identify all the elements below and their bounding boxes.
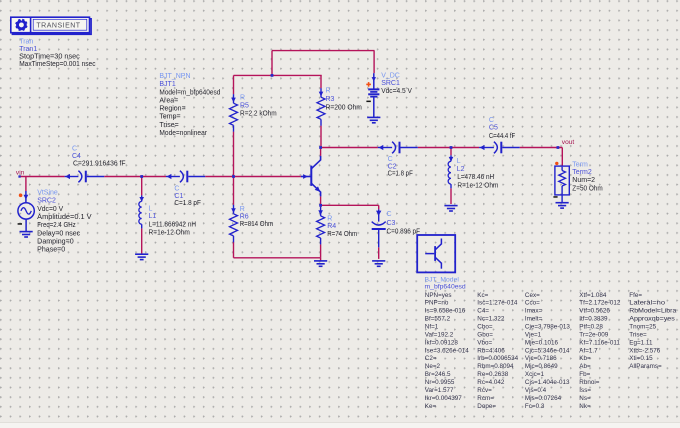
- svg-text:Ikr=0.004397: Ikr=0.004397: [425, 395, 462, 402]
- svg-text:Vtf=0.5626: Vtf=0.5626: [579, 308, 610, 315]
- SRC2 minus mark: [18, 223, 22, 225]
- svg-text:R6: R6: [240, 214, 249, 221]
- Term2 plus mark: [555, 162, 558, 165]
- svg-text:Vbo=: Vbo=: [477, 339, 492, 346]
- svg-text:R4: R4: [327, 223, 336, 230]
- svg-text:Lateral=no: Lateral=no: [629, 300, 665, 307]
- svg-text:Cco=: Cco=: [525, 300, 540, 307]
- svg-text:Nc=1.322: Nc=1.322: [477, 316, 505, 323]
- resistor R3: [317, 88, 325, 126]
- svg-text:Trise=: Trise=: [159, 122, 178, 129]
- svg-text:Ptf=0.28: Ptf=0.28: [579, 324, 603, 331]
- wire L2 to ground: [450, 188, 452, 204]
- svg-text:Tran1: Tran1: [19, 46, 37, 53]
- svg-text:Rc=4.042: Rc=4.042: [477, 379, 505, 386]
- svg-text:NPN=yes: NPN=yes: [425, 292, 452, 299]
- model box m_bfp640esd: [417, 235, 455, 272]
- R5 labels: [240, 95, 277, 118]
- wire C3 to ground: [378, 247, 380, 259]
- wire bottom rail: [234, 257, 321, 259]
- svg-text:Xti=0.15: Xti=0.15: [629, 355, 653, 362]
- svg-text:C3: C3: [387, 220, 396, 227]
- C4 labels: [72, 145, 126, 167]
- wire top rail drop: [271, 51, 273, 76]
- C3 labels: [387, 211, 421, 235]
- wire to V_DC: [373, 51, 375, 74]
- svg-text:Cbo=: Cbo=: [477, 324, 493, 331]
- svg-text:R: R: [240, 206, 245, 213]
- svg-text:Tf=2.172e-012: Tf=2.172e-012: [579, 300, 621, 307]
- svg-text:C5: C5: [489, 125, 498, 132]
- svg-text:Isc=1.27e-014: Isc=1.27e-014: [477, 300, 518, 307]
- svg-text:Rb=4.406: Rb=4.406: [477, 347, 505, 354]
- wire R4 to ground rail: [320, 244, 322, 257]
- wire emitter stub: [320, 196, 322, 207]
- junction L1 tap: [140, 175, 143, 178]
- capacitor C5: [479, 142, 520, 154]
- svg-text:Mje=0.1016: Mje=0.1016: [525, 339, 559, 346]
- C2 labels: [388, 156, 413, 178]
- svg-text:C1: C1: [174, 193, 183, 200]
- wire collector to C2: [321, 147, 378, 149]
- svg-text:Dope=: Dope=: [477, 403, 496, 410]
- wire emitter to C3: [321, 204, 379, 206]
- Term2 labels: [572, 162, 603, 193]
- svg-text:Phase=0: Phase=0: [37, 247, 65, 254]
- svg-text:Vaf=192.2: Vaf=192.2: [425, 331, 454, 338]
- svg-text:Xcjc=1: Xcjc=1: [525, 371, 545, 378]
- svg-text:Irb=0.0006534: Irb=0.0006534: [477, 355, 518, 362]
- svg-text:Kc=: Kc=: [477, 292, 488, 299]
- svg-text:Mjc=0.8649: Mjc=0.8649: [525, 363, 558, 370]
- svg-text:L1: L1: [149, 213, 157, 220]
- svg-text:RbModel=Libra: RbModel=Libra: [629, 308, 677, 315]
- svg-text:Br=246.5: Br=246.5: [425, 371, 451, 378]
- svg-text:vout: vout: [562, 139, 575, 146]
- svg-text:Ffe=: Ffe=: [629, 292, 642, 299]
- svg-text:Rcv=: Rcv=: [477, 387, 492, 394]
- svg-text:Tnom=25: Tnom=25: [629, 324, 656, 331]
- SRC1 plus mark: [366, 82, 371, 87]
- ground below L1: [135, 254, 148, 259]
- wire to L2: [450, 148, 452, 156]
- svg-text:Eg=1.11: Eg=1.11: [629, 339, 653, 346]
- SRC2 plus mark: [19, 194, 23, 198]
- svg-text:Rcm=: Rcm=: [477, 395, 494, 402]
- svg-text:SRC2: SRC2: [37, 198, 56, 205]
- inductor L2: [448, 155, 453, 188]
- capacitor C3: [372, 209, 386, 247]
- svg-text:BJT_Model: BJT_Model: [425, 276, 460, 283]
- svg-text:R: R: [240, 95, 245, 102]
- capacitor C2: [378, 142, 418, 154]
- svg-text:Freq=2.4 GHz: Freq=2.4 GHz: [37, 222, 76, 229]
- svg-text:R=1e-12 Ohm: R=1e-12 Ohm: [149, 229, 191, 236]
- svg-text:C=1.8 pF: C=1.8 pF: [174, 200, 201, 207]
- svg-text:Term2: Term2: [572, 169, 592, 176]
- svg-text:C: C: [387, 211, 392, 218]
- svg-text:L=11.866942 nH: L=11.866942 nH: [149, 221, 197, 228]
- svg-text:Amplitude=0.1 V: Amplitude=0.1 V: [37, 214, 92, 221]
- ground stub R4/R6 rail: [320, 258, 322, 261]
- ground stub below L1: [141, 253, 143, 254]
- wire R5 to base net: [233, 132, 235, 177]
- svg-text:Ikf=0.09128: Ikf=0.09128: [425, 339, 459, 346]
- svg-text:Ns=: Ns=: [579, 395, 591, 402]
- svg-text:TRANSIENT: TRANSIENT: [36, 22, 80, 29]
- wire collector stub: [320, 148, 322, 156]
- svg-text:R: R: [327, 215, 332, 222]
- svg-text:R5: R5: [240, 102, 249, 109]
- svg-text:Xtf=1.084: Xtf=1.084: [579, 292, 607, 299]
- svg-text:Ise=3.626e-014: Ise=3.626e-014: [425, 347, 469, 354]
- junction L2 tap: [450, 146, 453, 149]
- wire rail to R3: [320, 75, 322, 88]
- svg-text:Trise=: Trise=: [629, 331, 647, 338]
- ground below SRC2: [20, 232, 33, 237]
- svg-text:C: C: [489, 117, 494, 124]
- wire L1 to ground: [141, 228, 143, 253]
- wire rail to R5: [233, 75, 235, 94]
- svg-text:Ne=2: Ne=2: [425, 363, 441, 370]
- svg-text:Bf=557.2: Bf=557.2: [425, 316, 451, 323]
- svg-text:L=478.46 nH: L=478.46 nH: [457, 174, 494, 181]
- svg-text:Delay=0 nsec: Delay=0 nsec: [37, 230, 81, 237]
- svg-text:StopTime=30 nsec: StopTime=30 nsec: [19, 53, 80, 60]
- svg-text:Vdc=0 V: Vdc=0 V: [37, 206, 63, 213]
- Term2 ground stub: [561, 194, 563, 202]
- svg-text:C: C: [72, 145, 77, 152]
- wire R3 to collector node: [320, 126, 322, 148]
- svg-text:Num=2: Num=2: [572, 177, 595, 184]
- inductor L1: [139, 195, 144, 228]
- svg-text:Mode=nonlinear: Mode=nonlinear: [159, 130, 207, 137]
- svg-text:Rbm=0.8094: Rbm=0.8094: [477, 363, 514, 370]
- ground below C3: [372, 261, 385, 266]
- svg-text:Cje=3.798e-013: Cje=3.798e-013: [525, 324, 570, 331]
- svg-text:Gbo=: Gbo=: [477, 331, 493, 338]
- ground below R4: [314, 261, 327, 266]
- wire vin to C4: [20, 176, 65, 178]
- svg-text:Is=9.658e-016: Is=9.658e-016: [425, 308, 466, 315]
- svg-text:Kf=7.116e-011: Kf=7.116e-011: [579, 339, 620, 346]
- wire to L1: [141, 177, 143, 196]
- ground below Term2: [556, 203, 569, 208]
- L2 labels: [457, 158, 499, 190]
- wire vin drop to SRC2: [25, 177, 27, 192]
- junction collector node: [319, 146, 322, 149]
- Tran controller labels: [19, 38, 96, 68]
- junction emitter node: [319, 204, 322, 207]
- svg-text:R=200 Ohm: R=200 Ohm: [326, 105, 363, 112]
- svg-text:Re=0.2638: Re=0.2638: [477, 371, 508, 378]
- wire C4 to C1: [104, 176, 166, 178]
- svg-text:Cjs=1.404e-013: Cjs=1.404e-013: [525, 379, 570, 386]
- svg-text:Nf=1: Nf=1: [425, 324, 439, 331]
- source SRC2 VtSine: [18, 191, 34, 231]
- svg-text:VtSine: VtSine: [37, 189, 58, 196]
- svg-text:V_DC: V_DC: [381, 73, 400, 80]
- source SRC1 V_DC battery: [368, 73, 379, 117]
- SRC2 labels: [37, 189, 92, 253]
- resistor R5: [230, 94, 238, 132]
- svg-text:C2=: C2=: [425, 355, 437, 362]
- model box labels: [425, 276, 466, 290]
- svg-text:Iss=: Iss=: [579, 387, 591, 394]
- svg-text:Tran: Tran: [19, 38, 33, 45]
- svg-text:Cjc=5.346e-014: Cjc=5.346e-014: [525, 347, 570, 354]
- svg-text:C=1.8 pF: C=1.8 pF: [388, 171, 413, 178]
- wire C2 to C5: [418, 147, 479, 149]
- wire C1 to BJT base: [205, 176, 301, 178]
- svg-text:C=0.896 pF: C=0.896 pF: [387, 228, 421, 235]
- node vin pin: [18, 175, 20, 177]
- svg-text:C: C: [388, 156, 393, 163]
- wire C3 top: [378, 205, 380, 209]
- svg-text:R: R: [326, 87, 331, 94]
- svg-text:R=814 Ohm: R=814 Ohm: [240, 221, 274, 228]
- svg-text:PNP=no: PNP=no: [425, 300, 449, 307]
- svg-text:C=44.4 fF: C=44.4 fF: [489, 133, 515, 140]
- svg-text:Damping=0: Damping=0: [37, 238, 74, 245]
- junction supply rail tap: [271, 74, 274, 77]
- svg-text:Approxqb=yes: Approxqb=yes: [629, 316, 675, 323]
- svg-text:Vje=1: Vje=1: [525, 331, 542, 338]
- SRC1 minus mark: [366, 101, 370, 103]
- svg-text:AllParams=: AllParams=: [629, 363, 662, 370]
- svg-text:MaxTimeStep=0.001 nsec: MaxTimeStep=0.001 nsec: [19, 61, 96, 68]
- R3 labels: [326, 87, 363, 111]
- svg-text:BJT1: BJT1: [159, 81, 175, 88]
- svg-text:Ke=: Ke=: [425, 403, 437, 410]
- svg-text:Imelt=: Imelt=: [525, 316, 543, 323]
- svg-text:Af=1.7: Af=1.7: [579, 347, 598, 354]
- svg-text:m_bfp640esd: m_bfp640esd: [425, 284, 466, 291]
- ground below SRC1: [367, 117, 380, 122]
- svg-text:Z=50 Ohm: Z=50 Ohm: [572, 185, 603, 192]
- svg-text:SRC1: SRC1: [381, 80, 400, 87]
- svg-text:Vjs=0.4: Vjs=0.4: [525, 387, 547, 394]
- svg-text:R=74 Ohm: R=74 Ohm: [327, 231, 357, 238]
- svg-text:L: L: [457, 158, 461, 165]
- ground below L2: [444, 206, 457, 211]
- junction vout node: [557, 146, 560, 149]
- port Term2: [555, 166, 569, 195]
- svg-text:Fb=: Fb=: [579, 371, 590, 378]
- wire top rail: [272, 50, 375, 52]
- svg-text:Region=: Region=: [159, 106, 185, 113]
- model parameter table: [425, 292, 677, 410]
- svg-text:R3: R3: [326, 96, 335, 103]
- resistor R4: [317, 207, 325, 245]
- junction base divider tap: [232, 175, 235, 178]
- R6 labels: [240, 206, 274, 228]
- BJT1 labels: [159, 73, 220, 137]
- wire C5 to vout: [520, 147, 563, 149]
- svg-text:Itf=0.3839: Itf=0.3839: [579, 316, 608, 323]
- svg-text:Term: Term: [572, 162, 588, 169]
- svg-text:L2: L2: [457, 166, 465, 173]
- svg-text:C2: C2: [388, 164, 397, 171]
- svg-text:Nr=0.9955: Nr=0.9955: [425, 379, 455, 386]
- svg-text:Var=1.577: Var=1.577: [425, 387, 454, 394]
- svg-text:C: C: [174, 186, 179, 193]
- svg-text:Model=m_bfp640esd: Model=m_bfp640esd: [159, 89, 220, 96]
- svg-text:C4=: C4=: [477, 308, 489, 315]
- svg-text:Kb=: Kb=: [579, 355, 591, 362]
- L1 labels: [149, 205, 197, 236]
- transistor BJT1: [301, 156, 321, 197]
- bottom margin strip: [0, 423, 680, 428]
- resistor R6: [230, 205, 238, 243]
- wire R6 to bottom rail: [233, 242, 235, 258]
- svg-text:Vdc=4.5 V: Vdc=4.5 V: [381, 88, 412, 95]
- C5 labels: [489, 117, 515, 140]
- wire supply rail: [234, 74, 322, 76]
- SRC1 labels: [381, 73, 412, 95]
- wire vout to Term2: [561, 148, 563, 167]
- svg-text:Rbnoi=: Rbnoi=: [579, 379, 599, 386]
- svg-text:C=291.916436 fF: C=291.916436 fF: [73, 160, 126, 167]
- gear icon: [16, 19, 28, 31]
- svg-text:Tr=2e-009: Tr=2e-009: [579, 331, 608, 338]
- Term2 minus mark: [553, 196, 557, 198]
- svg-text:C4: C4: [72, 153, 81, 160]
- svg-text:BJT_NPN: BJT_NPN: [159, 73, 190, 80]
- svg-text:Temp=: Temp=: [159, 114, 180, 121]
- capacitor C1: [166, 171, 205, 183]
- svg-text:Cex=: Cex=: [525, 292, 540, 299]
- svg-text:Fc=0.3: Fc=0.3: [525, 403, 545, 410]
- svg-text:Imax=: Imax=: [525, 308, 543, 315]
- svg-text:R=1e-12 Ohm: R=1e-12 Ohm: [457, 182, 498, 189]
- C1 labels: [174, 186, 201, 208]
- svg-text:R=2.2 kOhm: R=2.2 kOhm: [240, 111, 277, 118]
- svg-text:L: L: [149, 205, 153, 212]
- svg-text:Ab=: Ab=: [579, 363, 591, 370]
- svg-text:Nk=: Nk=: [579, 403, 591, 410]
- svg-text:Mjs=0.07264: Mjs=0.07264: [525, 395, 562, 402]
- svg-text:Area=: Area=: [159, 97, 178, 104]
- svg-text:vin: vin: [16, 170, 25, 177]
- wire base net to R6: [233, 177, 235, 205]
- svg-text:Xtb=-2.576: Xtb=-2.576: [629, 347, 660, 354]
- capacitor C4: [65, 171, 105, 183]
- simulation controller TRANSIENT box: [11, 17, 91, 34]
- R4 labels: [327, 215, 357, 237]
- svg-text:Vjc=0.7186: Vjc=0.7186: [525, 355, 557, 362]
